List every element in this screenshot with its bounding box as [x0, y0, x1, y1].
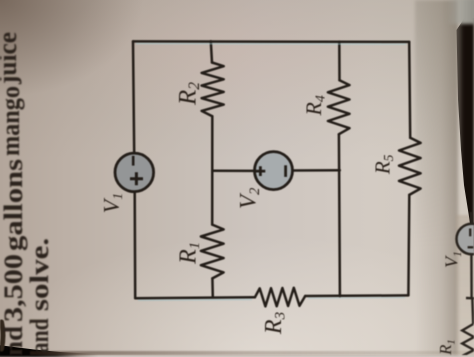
second page strip (bottom right) — [456, 215, 474, 355]
resistor R2 — [202, 63, 224, 117]
svg-text:nd3,500gallonsmangojuice: nd3,500gallonsmangojuice — [0, 32, 28, 355]
second page: resistor R1 — [462, 324, 474, 356]
svg-text:R1: R1 — [436, 339, 458, 355]
wire: branch A top (to R2) — [211, 41, 212, 62]
resistor R4 — [328, 80, 350, 134]
wire: left branch lower (V1 to bottom) — [133, 192, 136, 299]
cut-off glyph at left edge (lower) — [2, 322, 4, 349]
svg-text:R4: R4 — [301, 95, 329, 116]
wire: branch A bottom (R1 to bottom wire) — [211, 278, 214, 297]
svg-text:V1: V1 — [442, 251, 465, 268]
second page: wire corner to R1 — [471, 298, 474, 324]
svg-text:R3: R3 — [261, 312, 289, 335]
wire: branch B lower (R4 through node B to bottom) — [339, 134, 340, 296]
right side darkening toward gutter — [415, 0, 458, 355]
second page: wire vertical above V1 — [462, 212, 474, 356]
black bar bottom-left (photo edge) — [0, 344, 98, 357]
resistor R5 — [399, 138, 421, 195]
wire: right branch upper — [409, 42, 410, 138]
wire: branch B top (to R4) — [338, 42, 341, 81]
wire: bottom horizontal right of R3 — [305, 294, 408, 297]
wire: middle horizontal left (node A to V2) — [212, 170, 254, 173]
bottom edge shadow — [30, 351, 474, 355]
wire: left branch upper (to V1) — [133, 41, 134, 153]
wire: bottom horizontal left of R3 — [135, 296, 255, 299]
wire: branch A middle (R2 to R1) — [211, 116, 214, 224]
second page: wire horizontal stub — [466, 297, 474, 300]
second page: wire V1 to corner node — [470, 254, 473, 298]
chromatic fringe under bottom wire — [138, 299, 252, 302]
wire: right branch lower — [407, 195, 410, 296]
svg-text:V1: V1 — [98, 193, 126, 213]
page gutter dark band top (right) — [455, 18, 474, 263]
svg-text:V2: V2 — [236, 188, 264, 209]
svg-text:R2: R2 — [175, 82, 204, 106]
svg-text:andsolve.: andsolve. — [25, 238, 54, 353]
wire: top horizontal — [133, 40, 409, 43]
voltage source V1 — [115, 153, 154, 192]
top-right corner lighter area — [446, 0, 474, 24]
second page: source V1 — [457, 224, 474, 255]
voltage source V2 — [255, 152, 293, 190]
svg-text:R1: R1 — [176, 242, 204, 265]
wire: middle horizontal right (V2 to branch B) — [293, 169, 340, 172]
svg-text:R5: R5 — [371, 154, 396, 175]
resistor R3 — [255, 288, 305, 307]
resistor R1 — [201, 225, 224, 279]
chromatic fringe under top wire — [136, 43, 406, 46]
